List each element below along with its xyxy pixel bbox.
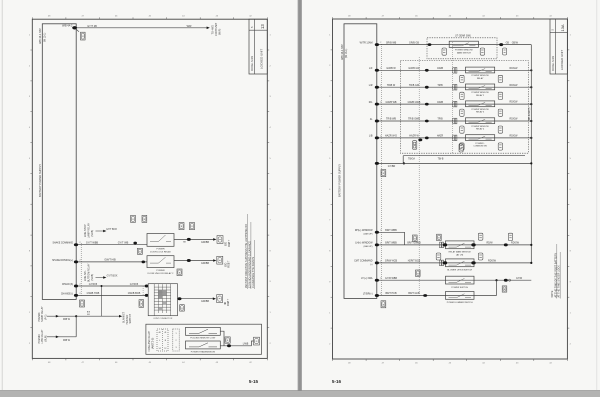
pin box row 5 right [498, 143, 502, 150]
svg-text:GR/B GB: GR/B GB [409, 41, 419, 44]
svg-text:2: 2 [80, 283, 81, 285]
svg-text:POWER WINDOW: POWER WINDOW [471, 92, 488, 94]
svg-text:GB: GB [506, 42, 510, 44]
rotated note text right page [556, 244, 558, 299]
svg-text:13: 13 [260, 24, 265, 29]
svg-text:JOINT CONNECTOR: JOINT CONNECTOR [153, 318, 173, 320]
wire row RH window jog [377, 232, 405, 245]
wire row C [76, 285, 148, 287]
svg-text:5-15: 5-15 [249, 379, 259, 384]
connector pair row 1 [453, 68, 455, 74]
pin box row T left [442, 48, 446, 55]
junction dot GY/BR collector [530, 162, 532, 164]
blob LH rect right [471, 243, 475, 246]
left page frame [32, 19, 267, 358]
blob row D at joint connector [145, 294, 149, 297]
svg-text:(P-1): (P-1) [44, 314, 47, 320]
svg-text:1: 1 [175, 333, 176, 335]
svg-text:GY/T WBB: GY/T WBB [86, 242, 99, 245]
connector pair LH row [440, 242, 442, 248]
svg-text:GY/R B: GY/R B [89, 283, 98, 286]
left page left zone ticks [30, 49, 32, 51]
id box E5 [142, 215, 147, 222]
svg-text:POWER LUMBER SWITCH: POWER LUMBER SWITCH [447, 302, 473, 304]
svg-text:4D: 4D [225, 302, 227, 305]
wire heater feed [76, 315, 119, 317]
svg-text:GY/T BOX: GY/T BOX [106, 229, 117, 231]
wire W/R top feed [76, 27, 207, 29]
connector table 1 [157, 329, 168, 351]
svg-text:MAIN SWITCH: MAIN SWITCH [457, 51, 471, 54]
svg-text:GW/T HIB: GW/T HIB [104, 259, 116, 262]
svg-text:RELAY 2: RELAY 2 [476, 94, 485, 97]
right page left zone ticks [331, 49, 333, 51]
id box 13B [177, 269, 182, 276]
wire row LH window [377, 244, 532, 246]
svg-text:(W/R): (W/R) [219, 28, 222, 35]
id box E4 bottom [225, 337, 230, 343]
connector square row A [217, 236, 223, 244]
connector pair row 4 [453, 118, 455, 124]
id box E3 [131, 215, 136, 222]
svg-text:3: 3 [175, 347, 176, 349]
svg-text:RELAY MAIN SERVICE: RELAY MAIN SERVICE [449, 251, 472, 254]
junction dot row 1 [530, 69, 532, 71]
svg-text:GW/BB: GW/BB [201, 262, 209, 265]
svg-text:CMT COMMAND: CMT COMMAND [354, 260, 373, 263]
svg-text:POWER WINDOW: POWER WINDOW [471, 126, 488, 128]
svg-text:RELAY 3: RELAY 3 [476, 111, 485, 114]
connector pair row 3 [453, 101, 455, 107]
dotted class line page link [418, 57, 420, 296]
svg-text:40: 40 [159, 332, 161, 334]
svg-text:W/B 4A-2: W/B 4A-2 [62, 25, 73, 28]
svg-text:DOOR LOCK RELAY: DOOR LOCK RELAY [150, 250, 171, 253]
svg-text:RD/GW: RD/GW [511, 243, 520, 245]
svg-text:COMMON SW: COMMON SW [473, 146, 486, 148]
svg-text:TR/B GWB: TR/B GWB [408, 118, 420, 121]
wire S2 output [220, 345, 251, 347]
svg-text:POWER TRANSMISSION: POWER TRANSMISSION [191, 350, 216, 353]
svg-text:BR/T WBB: BR/T WBB [385, 242, 397, 245]
svg-text:14: 14 [159, 348, 161, 350]
blob CMT rect right [471, 261, 475, 264]
svg-text:AT THE TIME UNDER LOCK: AT THE TIME UNDER LOCK [558, 265, 561, 298]
pin box row 1 left [460, 75, 464, 82]
svg-text:GW/B: GW/B [437, 102, 444, 104]
switch power window lock [446, 276, 475, 284]
id box T19 [137, 248, 142, 254]
blob row 3 mid [425, 103, 429, 106]
dark gap band between scanned pages [298, 0, 302, 391]
wire long feed GY/BR [377, 162, 532, 164]
wire row D [76, 294, 148, 296]
svg-text:LT/BR(+): LT/BR(+) [363, 292, 373, 295]
svg-text:RD/GW: RD/GW [488, 261, 497, 263]
blob row 4 mid [425, 120, 429, 123]
relay R1 power door lock [147, 234, 174, 247]
connector square row E [217, 295, 223, 303]
pin box row T mid [503, 48, 507, 55]
svg-text:MODEL S-NM: MODEL S-NM [251, 56, 254, 71]
junction premix sump [75, 315, 77, 317]
svg-text:GW/B HCB: GW/B HCB [87, 292, 100, 295]
svg-text:GY/T 2B: GY/T 2B [87, 25, 97, 28]
blob LT/BR row [423, 294, 427, 297]
svg-text:2: 2 [380, 260, 381, 262]
switch S1 folding remote [186, 327, 221, 335]
svg-text:13A: 13A [560, 24, 565, 31]
connector box C4 right of TB branch [459, 144, 463, 152]
svg-text:2: 2 [80, 293, 81, 295]
svg-text:2: 2 [380, 68, 381, 70]
svg-text:POWER WINDOW: POWER WINDOW [455, 50, 473, 52]
svg-text:5-16: 5-16 [332, 379, 342, 384]
svg-text:GW/B WB: GW/B WB [386, 101, 397, 104]
switch blower up down [446, 259, 475, 267]
svg-text:LH(+) WINDOW: LH(+) WINDOW [355, 242, 373, 245]
relay U3 [466, 101, 495, 107]
fuse and relay unit box [146, 324, 262, 354]
joint connector grid box [148, 284, 177, 316]
svg-text:L/R: L/R [369, 84, 373, 87]
connector square row B [217, 256, 223, 264]
svg-text:GY/T BOX: GY/T BOX [107, 276, 118, 278]
svg-text:TO 4WD: TO 4WD [211, 25, 214, 35]
svg-text:DOOR UNLOCK RELAY 2: DOOR UNLOCK RELAY 2 [148, 272, 174, 275]
pin box LH upper right [478, 233, 483, 240]
svg-text:2: 2 [380, 42, 381, 44]
wire TB/GA branch [402, 156, 404, 164]
id box H4 [437, 234, 442, 240]
svg-text:12: 12 [164, 348, 166, 350]
svg-text:(AT LH): (AT LH) [456, 253, 463, 256]
relay U1 [466, 67, 495, 73]
svg-text:GB/W: GB/W [512, 42, 519, 44]
right page right zone ticks [567, 49, 569, 51]
svg-text:H2R/T BCB: H2R/T BCB [408, 260, 421, 263]
relay R2 power door unlock [147, 256, 174, 268]
junction dot TB branch [403, 162, 405, 164]
svg-text:L: L [159, 340, 160, 342]
id box E11b [381, 301, 386, 308]
svg-text:GW/BB: GW/BB [201, 300, 209, 303]
dotted class line left cluster [80, 243, 82, 296]
connector pair CMT row [440, 260, 442, 266]
svg-text:(SUB): (SUB) [44, 335, 47, 342]
svg-text:2: 2 [380, 230, 381, 232]
fuse box 31 [81, 32, 86, 40]
left page top zone ticks [31, 17, 33, 19]
svg-text:(W 13-1): (W 13-1) [43, 32, 46, 42]
blob CMT rect left [443, 261, 447, 264]
wire row A [76, 244, 147, 246]
svg-text:BR/T HCB: BR/T HCB [385, 292, 397, 295]
svg-text:RGB T: RGB T [228, 298, 230, 306]
relay U4 [466, 118, 495, 124]
pin box row 2 right [498, 92, 502, 99]
wire premix sump feed [47, 315, 76, 317]
wire relay row 1 [377, 69, 532, 71]
connector box B4 [413, 141, 417, 150]
connector square bottom cluster [254, 337, 260, 345]
svg-text:W/B 13-1 BAT: W/B 13-1 BAT [341, 44, 344, 60]
svg-text:RELAY 4: RELAY 4 [476, 128, 485, 131]
wire row CMT command [377, 262, 532, 264]
right page top zone ticks [332, 17, 334, 19]
svg-text:TR/B GW: TR/B GW [409, 84, 420, 87]
svg-text:(W 13-1): (W 13-1) [345, 48, 348, 58]
svg-text:TB/-B: TB/-B [438, 158, 444, 160]
wire relay row 3 [377, 103, 532, 105]
svg-text:W/TR 1JAM: W/TR 1JAM [360, 41, 373, 44]
wire row B [76, 261, 147, 263]
bottom scanner strip [0, 391, 600, 397]
svg-text:BATTERY POWER SUPPLY: BATTERY POWER SUPPLY [338, 164, 342, 197]
svg-text:GW/B BCB: GW/B BCB [128, 292, 141, 295]
blob row 2 mid [425, 86, 429, 89]
id box E6 [80, 300, 85, 307]
riser wire lumber to LT row [496, 280, 498, 295]
dotted link rows C-D [142, 286, 144, 295]
blob LH rect left [443, 243, 447, 246]
relay U-T power window main [449, 41, 478, 47]
svg-text:BB RCM (5): BB RCM (5) [529, 107, 531, 120]
pin box row 3 left [460, 109, 464, 116]
switch S2 power transmission [186, 341, 221, 349]
svg-text:BR/T GWBB: BR/T GWBB [407, 242, 421, 245]
svg-text:FOLDING REMOTE CONT: FOLDING REMOTE CONT [190, 337, 216, 339]
svg-text:41: 41 [164, 332, 166, 334]
svg-text:NOTE: NOTE [551, 290, 554, 297]
pin box row 2 left [460, 92, 464, 99]
svg-text:TR/B WB: TR/B WB [386, 118, 396, 121]
junction dot row 5 [530, 137, 532, 139]
switch main service [446, 241, 475, 249]
wire relay row 5 [377, 137, 532, 139]
svg-text:RGB T: RGB T [229, 239, 231, 247]
svg-text:2: 2 [380, 278, 381, 280]
paper left edge line [1, 0, 3, 390]
svg-text:2: 2 [380, 118, 381, 120]
connector table 2 [173, 329, 179, 351]
svg-text:2: 2 [80, 259, 81, 261]
pin box row 1 right [498, 75, 502, 82]
pin box row 4 left [460, 126, 464, 133]
svg-text:GW/BB: GW/BB [201, 241, 209, 244]
svg-text:2: 2 [380, 102, 381, 104]
id box E5 lower [180, 305, 185, 311]
pin box LH right [508, 233, 512, 240]
svg-text:2: 2 [380, 242, 381, 244]
id box D4 [502, 286, 507, 292]
wire row T power window feed [377, 44, 532, 46]
svg-text:2: 2 [380, 85, 381, 87]
blob row 1 mid [425, 69, 429, 72]
dotted class line right page near bus [381, 44, 383, 296]
svg-text:RD/GW: RD/GW [510, 119, 519, 121]
entry blob row T [428, 43, 432, 46]
right page bottom zone ticks [332, 359, 334, 361]
svg-text:L/WB: L/WB [243, 344, 249, 346]
svg-text:TR/B: TR/B [437, 85, 443, 87]
svg-text:B/D: B/D [225, 262, 227, 266]
blob row C at joint connector [145, 285, 149, 288]
junction dot LT riser [495, 279, 497, 281]
svg-text:(SUB): (SUB) [91, 274, 94, 281]
svg-text:RGB T: RGB T [229, 260, 231, 268]
svg-text:RD/GW: RD/GW [510, 68, 519, 70]
switch power lumber [446, 292, 475, 300]
dashed box IT GEAR [427, 38, 497, 59]
svg-text:GY/R B: GY/R B [130, 283, 139, 286]
junction dot row 2 [530, 86, 532, 88]
svg-text:B/D: B/D [226, 242, 228, 246]
svg-text:LOCKED UNIT: LOCKED UNIT [560, 50, 564, 70]
wire row A output [174, 238, 213, 240]
svg-text:RD/GW: RD/GW [510, 85, 519, 87]
svg-text:CONT UNIT: CONT UNIT [215, 22, 218, 36]
wire row E output [178, 298, 214, 300]
svg-text:R/L: R/L [369, 101, 373, 104]
svg-text:CHANGE(-): CHANGE(-) [61, 293, 73, 296]
svg-text:L/B: L/B [369, 135, 373, 138]
svg-text:GY/BR: GY/BR [388, 165, 396, 168]
svg-text:GY/W: GY/W [516, 278, 523, 280]
left page title block [249, 19, 267, 74]
id box 13C below row D [139, 300, 144, 308]
svg-text:SWITCH: SWITCH [129, 314, 132, 324]
junction blob row A [133, 242, 137, 245]
svg-text:LOCKED UNIT: LOCKED UNIT [260, 49, 264, 69]
svg-text:LT(+) 1WA: LT(+) 1WA [361, 277, 373, 280]
junction dot CMT collector [530, 262, 532, 264]
id box 24 [179, 223, 184, 230]
wire row LT/BR lumber [377, 295, 497, 297]
svg-text:BR/T WBB: BR/T WBB [385, 229, 397, 232]
id box E11 [381, 170, 386, 177]
svg-text:TR/B W: TR/B W [387, 84, 396, 87]
wire S1 to S2 join [220, 331, 224, 346]
svg-text:TR/B: TR/B [437, 119, 443, 121]
svg-text:2: 2 [380, 135, 381, 137]
svg-text:HAZR W: HAZR W [409, 135, 419, 138]
wire bus drop to premix low [75, 316, 77, 337]
svg-text:TB/GA: TB/GA [408, 157, 415, 160]
svg-text:POWER WINDOW: POWER WINDOW [471, 109, 488, 111]
wire premix low feed [47, 336, 76, 338]
collector wire vertical [530, 45, 532, 263]
svg-text:CHECK(S): CHECK(S) [62, 284, 73, 286]
svg-text:(JAM UP): (JAM UP) [363, 245, 372, 248]
blob LH mid right [504, 243, 508, 246]
connector pair row 5 [453, 135, 455, 141]
pin box CMT upper right [478, 253, 483, 260]
svg-text:GW/B W: GW/B W [386, 67, 396, 70]
riser to heater feed [101, 286, 103, 316]
battery bus rectangle right page [344, 24, 377, 299]
blob row 5 mid [425, 137, 429, 140]
junction dot LH collector [530, 244, 532, 246]
battery bus rectangle left page [42, 24, 76, 300]
svg-text:SHAKE DRIVING(+): SHAKE DRIVING(+) [52, 259, 73, 262]
svg-text:GY/R WBB: GY/R WBB [385, 277, 397, 280]
pin box row 4 right [498, 126, 502, 133]
right page frame [333, 19, 568, 359]
svg-text:POWER L: POWER L [475, 143, 485, 145]
svg-text:(JAM UP): (JAM UP) [363, 232, 372, 235]
svg-text:BATTERY POWER SUPPLY: BATTERY POWER SUPPLY [38, 164, 42, 197]
svg-text:GW/B GW: GW/B GW [408, 67, 420, 70]
svg-text:(A60TZ-B): (A60TZ-B) [151, 337, 154, 349]
wire row B output [174, 260, 213, 262]
id box A4 [413, 235, 418, 241]
svg-text:(+): (+) [370, 264, 373, 266]
svg-text:HAZR W-D: HAZR W-D [385, 135, 397, 138]
pin box row 3 right [498, 109, 502, 116]
junction dot row 3 [530, 103, 532, 105]
wire relay row 2 [377, 86, 532, 88]
svg-text:L/F: L/F [369, 67, 373, 70]
svg-text:POWER WINDOW: POWER WINDOW [471, 75, 488, 77]
svg-text:2: 2 [175, 340, 176, 342]
dotted line inside enclosure 2 [452, 42, 454, 153]
blob on row5 wire [418, 139, 422, 142]
svg-text:[IT GEAR S/M]: [IT GEAR S/M] [455, 34, 471, 37]
svg-text:GR/W HCB: GR/W HCB [385, 260, 398, 263]
pin box row 5 left [460, 143, 464, 150]
svg-text:CLEARANCE THE SIGN IN: CLEARANCE THE SIGN IN [252, 257, 255, 288]
wire relay row 4 [377, 120, 532, 122]
svg-text:M/B W: M/B W [63, 319, 71, 321]
svg-text:GY/T WB: GY/T WB [118, 242, 129, 245]
svg-text:W/B 13-1 BAT: W/B 13-1 BAT [39, 28, 42, 44]
svg-text:RD/GW: RD/GW [510, 102, 519, 104]
svg-text:M/B W: M/B W [63, 340, 71, 342]
svg-text:POWER: POWER [156, 270, 165, 272]
right page title block [550, 19, 567, 74]
relay U5 [466, 135, 495, 141]
svg-text:GW/B: GW/B [437, 68, 444, 70]
paper right edge line [596, 0, 598, 390]
svg-text:RELAY: RELAY [477, 77, 484, 80]
left page bottom zone ticks [31, 358, 33, 360]
wire row LT power switch [377, 279, 532, 281]
pin box row T right [480, 48, 484, 55]
rotated note text left page [247, 214, 249, 289]
svg-text:W/R: W/R [187, 25, 192, 28]
svg-text:POWER: POWER [156, 249, 165, 251]
junction blob row B [142, 261, 146, 264]
svg-text:BLOWER UP/DN SWITCH: BLOWER UP/DN SWITCH [447, 270, 472, 272]
svg-text:(SUB): (SUB) [91, 230, 94, 237]
svg-text:RD/GW: RD/GW [510, 136, 519, 138]
id box 25 [190, 223, 195, 230]
svg-text:HAZR: HAZR [437, 135, 444, 138]
connector pair row 2 [453, 84, 455, 90]
pin box CMT upper left [436, 253, 441, 260]
svg-text:GW/B GWB: GW/B GWB [408, 101, 421, 104]
exit blob LT row [504, 279, 508, 282]
svg-text:POWER SWITCH: POWER SWITCH [451, 287, 468, 289]
id box C4b [416, 270, 421, 276]
relay U2 [466, 84, 495, 90]
svg-text:BR/T GCB: BR/T GCB [408, 292, 420, 295]
svg-text:MODEL S-NM: MODEL S-NM [552, 56, 555, 71]
svg-text:RD/W: RD/W [486, 243, 493, 245]
big dashed enclosure power window relays [400, 61, 528, 154]
left page right zone ticks [267, 49, 269, 51]
